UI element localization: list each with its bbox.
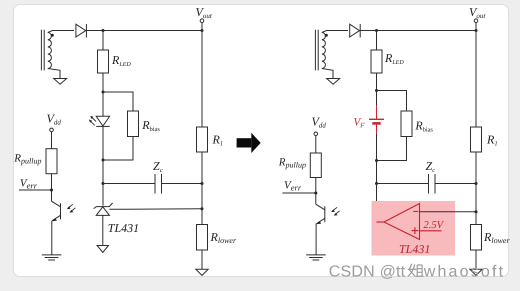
LED light arrows (89, 116, 96, 126)
transformer T1 core (41, 30, 44, 71)
wire LED to node C (102, 126, 104, 160)
ground (emitter 2, 3-bar) (306, 255, 326, 260)
terminal Vout (200, 19, 204, 23)
svg-text:CSDN @tt: CSDN @tt (329, 263, 406, 280)
wire emitter to ground (51, 221, 53, 255)
node Vout junction (201, 29, 204, 32)
node B2 (battery / R_bias top) (375, 89, 378, 92)
wire TL431 ref to node F (109, 208, 202, 211)
LED D2 (optocoupler emitter) (96, 116, 109, 126)
wire Vout2 rail to R1' (475, 31, 477, 128)
ground (R_lower, open triangle) (196, 269, 208, 275)
resistor R_pullup (46, 149, 57, 174)
wire node D2 to capacitor (377, 183, 429, 185)
wire node C2 to node D2 (376, 161, 378, 184)
resistor R_LED (98, 50, 109, 73)
ground (transformer 2, open triangle) (327, 79, 340, 85)
wire R_bias to node C (103, 137, 133, 161)
wire Vout2 terminal (475, 23, 477, 31)
node D2 (cap junction left) (375, 182, 378, 185)
transformer T1 polarity dot (51, 34, 54, 37)
svg-text:Vdd: Vdd (312, 115, 327, 130)
wire node C to node D (102, 160, 104, 184)
svg-text:Verr: Verr (284, 180, 302, 193)
wire node D to TL431 cathode (102, 184, 104, 206)
wire node E2 to R_lower2 (475, 184, 477, 225)
wire node B2 to R_bias2 (377, 91, 407, 112)
ground (emitter, 3-bar) (42, 255, 62, 260)
diode D1 (76, 24, 87, 38)
diode D3 (350, 24, 361, 38)
wire capacitor to node E (162, 183, 203, 185)
wire Vdd2 to R_pullup2 (315, 136, 317, 153)
transformer T1 secondary winding (48, 33, 52, 69)
wire node A to Vout rail (103, 30, 202, 32)
svg-text:R1: R1 (212, 133, 224, 148)
wire Vout terminal (201, 23, 203, 31)
capacitor Z_c (155, 174, 162, 194)
resistor R1 (197, 127, 208, 152)
wire winding top to diode (322, 31, 348, 33)
node A2 (375, 29, 378, 32)
svg-text:whaosoft: whaosoft (423, 263, 506, 280)
svg-text:RLED: RLED (111, 53, 131, 68)
svg-text:Rbias: Rbias (141, 118, 160, 133)
wire R_bias2 to node C2 (377, 137, 407, 161)
node Vout2 junction (475, 29, 478, 32)
capacitor Z_c2 (429, 174, 436, 194)
wire winding top to diode (48, 31, 74, 33)
svg-text:TL431: TL431 (399, 242, 430, 256)
TL431 U1 (zener-style) (94, 203, 113, 215)
wire R_lower2 to ground (475, 250, 477, 269)
svg-text:Vdd: Vdd (47, 112, 62, 127)
resistor R_pullup2 (310, 153, 321, 178)
wire node A2 to R_LED2 (376, 31, 378, 51)
wire node E to R_lower (201, 184, 203, 225)
resistor R_LED2 (371, 50, 382, 73)
svg-text:Rlower: Rlower (210, 230, 237, 245)
node F2 (divider junction) (475, 210, 478, 213)
svg-text:Rpullup: Rpullup (278, 157, 306, 170)
svg-text:2.5V: 2.5V (424, 220, 445, 231)
node G2 (V_err junction) (314, 192, 317, 195)
wire R_LED2 to node B2 (376, 73, 378, 91)
wire R_lower to ground (201, 250, 203, 269)
node C (LED / R_bias bottom) (102, 159, 105, 162)
watermark glyph jie (drawn) (408, 264, 424, 277)
node C2 (battery / R_bias bottom) (375, 159, 378, 162)
wire V_err2 (282, 192, 315, 194)
wire V_err (19, 189, 52, 191)
svg-text:TL431: TL431 (108, 221, 139, 235)
wire op-amp minus input to node F2 (420, 211, 477, 213)
resistor R_lower2 (471, 225, 482, 251)
ground (TL431, open triangle) (97, 246, 108, 253)
svg-text:Vout: Vout (196, 5, 213, 20)
ground (transformer, open triangle) (54, 79, 67, 85)
wire emitter 2 to ground (315, 224, 317, 255)
wire node B2 to battery (376, 91, 378, 106)
wire diode to node A (86, 30, 103, 32)
svg-text:Rpullup: Rpullup (13, 153, 41, 166)
wire node D2 down to op-amp output (376, 184, 378, 223)
terminal Vout2 (474, 19, 478, 23)
wire capacitor to node E2 (435, 183, 476, 185)
transformer T2 polarity dot (325, 34, 328, 37)
node D (cap junction left) (102, 182, 105, 185)
node E (R1 bottom junction) (201, 182, 204, 185)
terminal Vdd2 (314, 132, 318, 136)
wire winding bottom to ground (322, 69, 333, 79)
wire node A to R_LED (102, 31, 104, 51)
resistor R1' (471, 127, 482, 152)
node G (V_err junction) (50, 189, 53, 192)
wire R_pullup to collector (51, 174, 53, 202)
transistor 2 light arrows (331, 207, 340, 215)
transistor Q1 (photo-transistor) (52, 201, 61, 221)
wire R_LED to node B (102, 73, 104, 92)
svg-text:Rlower: Rlower (483, 230, 510, 245)
wire winding bottom to ground (48, 69, 60, 79)
svg-text:Vout: Vout (469, 5, 486, 20)
wire R1' to node E2 (475, 152, 477, 184)
resistor R_bias2 (401, 111, 412, 137)
transistor Q2 (photo-transistor) (316, 204, 325, 224)
op-amp U2 (TL431 model, red) (377, 204, 442, 240)
wire R1 to node E (201, 152, 203, 184)
wire node B to R_bias (103, 92, 133, 111)
node A (diode / R_LED junction) (102, 29, 105, 32)
resistor R_lower (197, 225, 208, 251)
highlight box (pink) (372, 201, 456, 256)
wire diode to node A2 (360, 30, 376, 32)
terminal Vdd (50, 128, 54, 132)
node E2 (R1 bottom junction) (475, 182, 478, 185)
wire node B to LED (102, 92, 104, 116)
wire battery to node C2 (376, 134, 378, 161)
wire Vout rail to R1 (201, 31, 203, 128)
svg-text:RLED: RLED (384, 51, 404, 66)
svg-text:VF: VF (354, 117, 366, 130)
transistor light arrows (67, 204, 76, 212)
svg-text:Verr: Verr (20, 178, 38, 191)
transformer T2 secondary winding (322, 33, 326, 69)
svg-text:Rbias: Rbias (414, 119, 433, 134)
node F (ref / divider junction) (201, 207, 204, 210)
wire R_pullup2 to collector (315, 178, 317, 205)
battery V_F (red) (369, 105, 384, 134)
ground (R_lower2, open triangle) (470, 269, 482, 275)
arrow between circuits (237, 133, 261, 153)
svg-text:Zc: Zc (153, 159, 163, 174)
resistor R_bias (128, 111, 139, 137)
wire node A2 to Vout rail (377, 30, 477, 32)
svg-text:R1: R1 (486, 133, 498, 148)
wire Vdd to R_pullup (51, 132, 53, 149)
node B (LED / R_bias top) (102, 91, 105, 94)
svg-text:Zc: Zc (426, 159, 436, 174)
transformer T2 core (315, 30, 318, 71)
wire node D to capacitor (103, 183, 155, 185)
wire TL431 anode down (102, 215, 104, 245)
